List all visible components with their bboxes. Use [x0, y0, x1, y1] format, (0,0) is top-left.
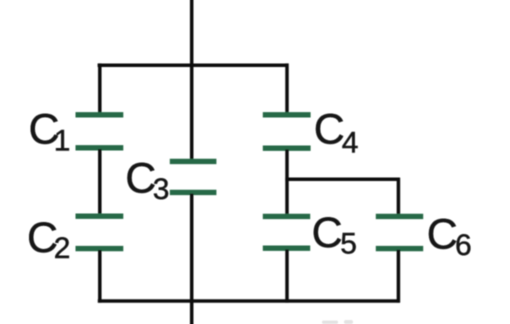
svg-text:C: C	[125, 155, 156, 203]
capacitor C5	[263, 216, 310, 248]
svg-text:C: C	[312, 209, 343, 257]
wire center vertical bottom (C3 to below image)	[190, 194, 194, 324]
wire left branch lower (C2 to bottom rail)	[98, 250, 102, 303]
wire far right vertical lower (C6 to bottom rail)	[397, 250, 401, 303]
wire bottom rail	[98, 299, 400, 303]
wire far right vertical upper (junction to C6)	[397, 178, 401, 216]
capacitor C1	[76, 115, 124, 148]
svg-text:C: C	[427, 211, 458, 259]
svg-text:4: 4	[342, 126, 359, 159]
svg-text:C: C	[314, 105, 345, 153]
svg-text:6: 6	[455, 229, 472, 262]
capacitor C3	[170, 161, 217, 192]
wire top rail	[98, 63, 289, 67]
svg-text:1: 1	[54, 125, 71, 158]
svg-text:3: 3	[153, 173, 170, 206]
cut-off caption remnant at bottom edge	[322, 320, 353, 324]
capacitor C2	[76, 216, 124, 248]
capacitor C6	[376, 216, 423, 248]
capacitor C4	[263, 115, 311, 148]
wire right branch upper (top rail to C4)	[285, 63, 289, 114]
svg-text:5: 5	[340, 228, 357, 261]
wire left branch middle (C1 to C2)	[98, 149, 102, 216]
svg-text:2: 2	[54, 232, 71, 265]
wire center vertical top (source to C3 top plate)	[190, 0, 194, 161]
wire right branch lower (C5 to bottom rail)	[285, 249, 289, 302]
wire right branch middle (C4 to C5 through junction)	[285, 149, 289, 216]
wire left branch upper (top rail to C1)	[98, 63, 102, 114]
wire junction horizontal (to C6 branch)	[285, 178, 400, 182]
